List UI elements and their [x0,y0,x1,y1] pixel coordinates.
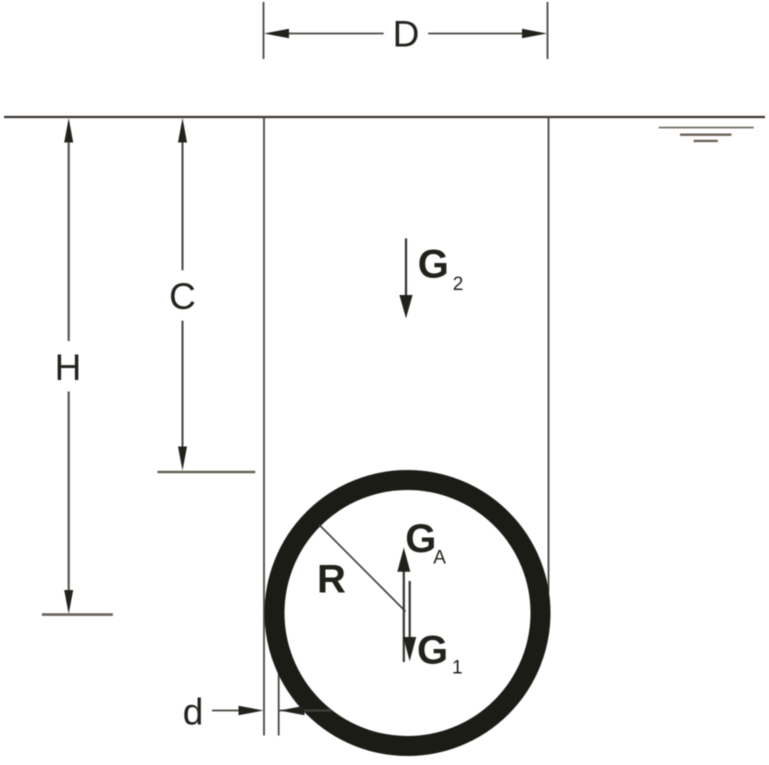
water surface symbol line 2 [680,133,731,135]
force G1 arrowhead [403,637,416,661]
svg-text:G: G [405,517,436,561]
cylinder inner wall line (thickness d) [278,650,280,736]
svg-text:2: 2 [453,274,464,295]
svg-text:R: R [317,558,346,602]
svg-text:1: 1 [452,658,463,679]
dimension D right extension line [547,2,549,59]
svg-text:D: D [393,13,420,54]
dimension D line left segment [286,33,384,35]
dimension C shaft upper segment [182,140,184,270]
force GA arrowhead [397,548,410,572]
dimension C bottom arrowhead [178,447,187,471]
dimension D left arrowhead [264,29,289,38]
cylinder left wall [263,117,265,736]
water surface symbol line 1 [659,127,754,129]
dimension d left arrowhead [239,706,264,715]
cylinder right wall [548,117,550,592]
dimension H bottom arrowhead [64,590,73,614]
dimension C top arrowhead [178,118,187,143]
radius line R [319,525,406,612]
dimension C bottom tick [158,471,256,474]
force G2 arrowhead [399,295,412,318]
dimension H top arrowhead [64,118,73,143]
dimension d right arrowhead [280,706,305,715]
dimension D left extension line [263,2,265,59]
dimension d left line [212,710,240,712]
svg-text:A: A [433,547,446,568]
water surface line [4,116,765,118]
dimension H shaft lower segment [68,392,70,594]
svg-text:G: G [418,243,449,287]
dimension H bottom tick [42,613,113,616]
water surface symbol line 3 [694,140,718,142]
force GA arrow shaft [403,569,405,662]
sphere thick circle [275,480,541,746]
svg-text:G: G [417,629,448,673]
dimension D line right segment [428,33,525,35]
force G1 arrow shaft [409,581,411,639]
dimension C shaft lower segment [182,321,184,449]
dimension H shaft upper segment [68,140,70,341]
force G2 arrow shaft [405,238,407,298]
svg-text:d: d [183,692,204,733]
dimension D right arrowhead [522,29,547,38]
svg-text:H: H [55,347,82,388]
svg-text:C: C [169,276,196,317]
dimension d right line [279,710,331,712]
